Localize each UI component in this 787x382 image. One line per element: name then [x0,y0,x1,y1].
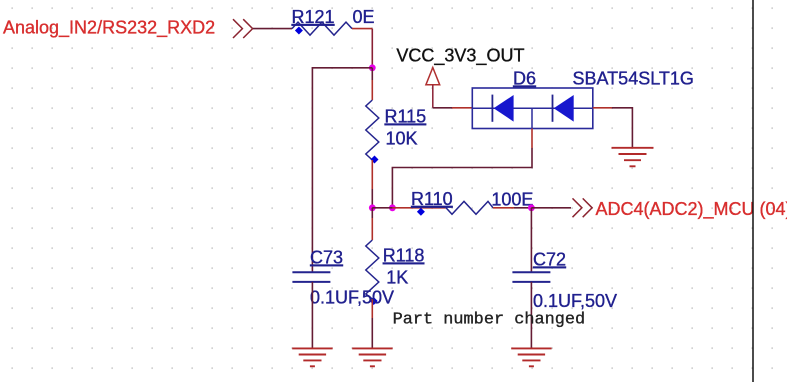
pin stub R118 bottom [371,299,373,318]
svg-text:10K: 10K [386,129,418,149]
svg-text:R118: R118 [383,246,425,266]
svg-text:100E: 100E [491,189,533,209]
ground (under C73) [292,348,332,366]
wire corner down from R121 [371,29,373,68]
pin-1 marker R118 [370,297,378,305]
wire node B [372,207,392,209]
wire VCC to diode [433,107,452,109]
output port symbol [573,198,593,217]
pin-1 marker R110 [417,208,425,216]
svg-text:R110: R110 [411,189,453,209]
svg-text:1K: 1K [386,268,408,288]
wire D6 bottom to node B [392,148,532,208]
wire R115 to node B [371,189,373,208]
wire branch to C73 [312,68,372,272]
junction node B left [369,204,376,211]
svg-text:R115: R115 [385,107,427,127]
resistor R121 [292,22,352,35]
pin stub D6 pin 2 bottom [531,129,533,149]
pin-1 marker R115 [371,156,379,164]
ground (under R118) [352,348,392,366]
pin stub R115 bottom [371,160,373,189]
wire node B down to R118 [371,208,373,218]
wire node A down to R115 [371,68,373,80]
capacitor C73 [292,272,330,282]
input port symbol [233,19,253,38]
resistor R115 [366,100,379,160]
wire R118 to ground [371,318,373,348]
pin stub D6 pin 3 right [593,107,612,109]
ground (under C72) [511,348,551,366]
pin-1 marker R121 [295,27,303,35]
resistor R110 [446,201,493,214]
ground (right of D6) [612,148,654,167]
svg-text:SBAT54SLT1G: SBAT54SLT1G [573,69,694,89]
power symbol VCC_3V3_OUT [426,68,440,108]
resistor R118 [366,240,379,299]
svg-text:0.1UF,50V: 0.1UF,50V [310,288,394,308]
diode D6 [472,88,593,129]
svg-text:C73: C73 [310,248,343,268]
wire C72 to ground [530,282,532,349]
junction node B mid [389,204,396,211]
wire D6 to ground [612,108,632,148]
svg-text:Part number changed: Part number changed [393,311,586,330]
pin stub R121 right [352,28,372,30]
wire node B down to C72 [530,208,532,272]
wire R110 to junction [514,207,531,209]
wire to output port [531,207,571,209]
pin stub R118 top [371,218,373,240]
svg-text:0E: 0E [353,7,375,27]
wire C73 to ground [311,282,313,349]
svg-text:VCC_3V3_OUT: VCC_3V3_OUT [396,46,524,67]
pin stub R110 right [493,207,514,209]
junction node A [369,64,376,71]
capacitor C72 [512,272,550,282]
svg-text:C72: C72 [533,250,566,270]
wire input to R121 [253,28,292,30]
pin stub R115 top [371,80,373,100]
junction node B right [528,204,535,211]
pin stub R110 left [392,207,445,209]
svg-text:0.1UF,50V: 0.1UF,50V [533,291,617,311]
svg-text:R121: R121 [292,7,335,27]
svg-text:Analog_IN2/RS232_RXD2: Analog_IN2/RS232_RXD2 [3,18,215,39]
pin stub D6 pin 1 [452,107,472,109]
border line [752,0,754,382]
svg-text:D6: D6 [513,69,536,89]
svg-text:ADC4(ADC2)_MCU (04): ADC4(ADC2)_MCU (04) [596,199,787,220]
